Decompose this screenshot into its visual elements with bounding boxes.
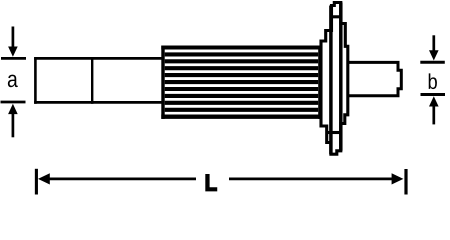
label L [206,175,217,191]
dimension b: bottom tick [421,93,446,96]
flange inner vertical left [329,6,333,155]
flange outer silhouette [321,3,348,155]
flange inner vertical right [339,3,343,151]
dimension b: up arrow [429,96,439,124]
dimension L: left extension line [35,169,38,195]
flange hub step line bottom [327,131,341,134]
label a [8,75,18,88]
dimension L: right extension line [404,169,407,195]
label b [429,73,437,89]
dimension a: top tick [1,57,26,60]
dimension L: right segment with arrowhead [229,173,403,184]
dimension L: left segment with arrowhead [38,173,196,184]
dimension b: top tick [420,61,445,64]
shaft section divider line [91,57,93,104]
dimension a: bottom tick [1,101,26,104]
splined section block [161,46,321,119]
flange hub step line top [332,15,341,18]
spline teeth lines [165,54,319,109]
dimension a: up arrow [8,104,18,138]
dimension b: down arrow [429,35,439,60]
shaft left section rectangle [34,57,163,104]
dimension a: down arrow [8,27,18,57]
stub shaft right [348,62,401,95]
